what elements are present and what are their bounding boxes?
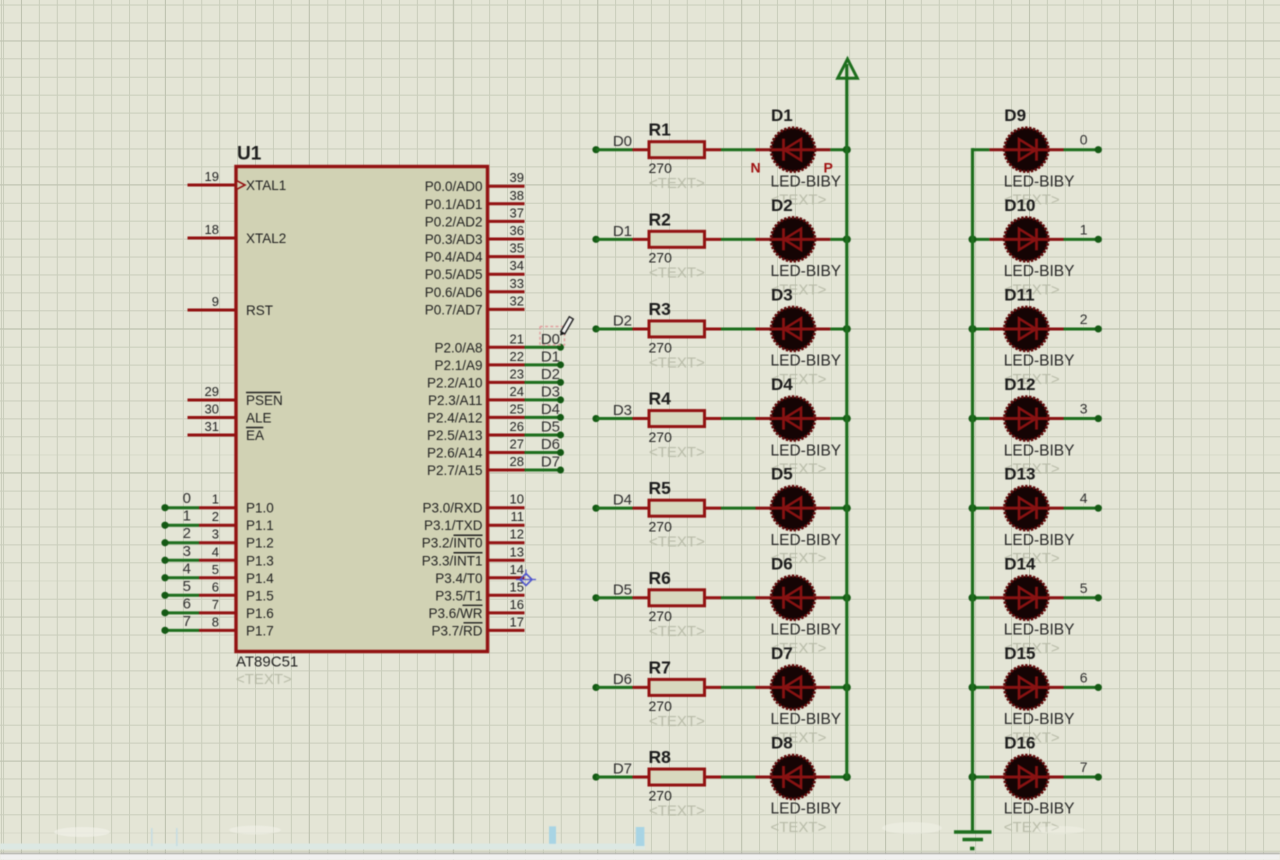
svg-text:P3.3/INT1: P3.3/INT1	[422, 553, 483, 568]
svg-text:P1.2: P1.2	[246, 536, 274, 551]
svg-text:<TEXT>: <TEXT>	[649, 802, 705, 819]
svg-text:9: 9	[212, 294, 219, 309]
svg-text:4: 4	[183, 560, 191, 577]
svg-text:5: 5	[1080, 580, 1088, 596]
svg-text:D2: D2	[613, 312, 632, 329]
svg-text:D11: D11	[1004, 285, 1034, 304]
svg-text:D7: D7	[613, 761, 632, 778]
svg-text:16: 16	[510, 597, 524, 612]
svg-text:7: 7	[183, 613, 191, 630]
svg-text:P3.5/T1: P3.5/T1	[435, 588, 482, 603]
svg-text:D10: D10	[1004, 196, 1035, 215]
svg-text:LED-BIBY: LED-BIBY	[1004, 532, 1075, 549]
svg-text:12: 12	[510, 527, 524, 542]
svg-text:D5: D5	[613, 581, 632, 598]
svg-text:25: 25	[510, 401, 524, 416]
svg-text:P1.5: P1.5	[246, 588, 274, 603]
svg-text:<TEXT>: <TEXT>	[771, 819, 827, 836]
svg-text:P2.0/A8: P2.0/A8	[434, 340, 482, 355]
svg-text:10: 10	[510, 492, 524, 507]
svg-text:17: 17	[510, 614, 524, 629]
svg-text:2: 2	[212, 509, 219, 524]
svg-text:P0.4/AD4: P0.4/AD4	[425, 250, 483, 265]
svg-text:D1: D1	[771, 106, 793, 125]
svg-text:P1.0: P1.0	[246, 501, 274, 516]
svg-text:34: 34	[510, 258, 524, 273]
svg-text:29: 29	[205, 384, 219, 399]
svg-text:D4: D4	[613, 492, 632, 509]
svg-text:<TEXT>: <TEXT>	[649, 265, 705, 282]
svg-text:LED-BIBY: LED-BIBY	[1004, 353, 1075, 370]
svg-text:22: 22	[510, 349, 524, 364]
svg-text:4: 4	[1080, 490, 1088, 506]
svg-text:LED-BIBY: LED-BIBY	[771, 173, 842, 190]
svg-text:P1.3: P1.3	[246, 553, 274, 568]
svg-text:P1.7: P1.7	[246, 623, 274, 638]
svg-text:P2.4/A12: P2.4/A12	[427, 410, 483, 425]
svg-text:18: 18	[205, 222, 219, 237]
svg-text:19: 19	[205, 169, 219, 184]
svg-text:D3: D3	[541, 383, 560, 400]
svg-text:2: 2	[1080, 311, 1088, 327]
svg-text:LED-BIBY: LED-BIBY	[1004, 711, 1075, 728]
svg-text:<TEXT>: <TEXT>	[649, 534, 705, 551]
svg-text:8: 8	[212, 614, 219, 629]
svg-text:P1.1: P1.1	[246, 518, 274, 533]
svg-text:26: 26	[510, 419, 524, 434]
svg-text:D7: D7	[541, 454, 560, 471]
svg-text:P3.7/RD: P3.7/RD	[431, 623, 482, 638]
svg-text:<TEXT>: <TEXT>	[649, 623, 705, 640]
svg-text:R4: R4	[649, 389, 672, 409]
svg-text:4: 4	[212, 544, 219, 559]
svg-text:28: 28	[510, 454, 524, 469]
svg-text:LED-BIBY: LED-BIBY	[771, 353, 842, 370]
svg-text:<TEXT>: <TEXT>	[649, 175, 705, 192]
svg-text:P2.3/A11: P2.3/A11	[428, 393, 483, 408]
svg-text:D3: D3	[771, 285, 793, 304]
svg-text:2: 2	[183, 525, 191, 542]
svg-text:14: 14	[510, 562, 524, 577]
svg-text:D4: D4	[771, 375, 793, 394]
svg-text:U1: U1	[237, 144, 262, 165]
svg-text:D15: D15	[1004, 644, 1035, 663]
svg-text:270: 270	[649, 339, 673, 355]
svg-text:R2: R2	[649, 209, 672, 229]
svg-text:270: 270	[649, 787, 673, 803]
svg-text:27: 27	[510, 436, 524, 451]
svg-text:AT89C51: AT89C51	[236, 654, 298, 671]
svg-text:<TEXT>: <TEXT>	[649, 713, 705, 730]
svg-text:LED-BIBY: LED-BIBY	[771, 532, 842, 549]
svg-text:R6: R6	[649, 568, 672, 588]
svg-text:3: 3	[1080, 401, 1088, 417]
svg-text:0: 0	[1080, 132, 1088, 148]
svg-text:LED-BIBY: LED-BIBY	[1004, 173, 1075, 190]
svg-text:RST: RST	[246, 303, 273, 318]
svg-text:D5: D5	[771, 465, 793, 484]
svg-text:1: 1	[1080, 221, 1088, 237]
svg-text:LED-BIBY: LED-BIBY	[1004, 622, 1075, 639]
svg-text:P0.7/AD7: P0.7/AD7	[425, 302, 483, 317]
svg-text:R8: R8	[649, 747, 672, 767]
svg-text:D6: D6	[541, 436, 560, 453]
svg-text:21: 21	[510, 331, 524, 346]
svg-text:D16: D16	[1004, 734, 1035, 753]
svg-text:24: 24	[510, 384, 524, 399]
svg-text:P1.4: P1.4	[246, 571, 274, 586]
svg-text:P0.6/AD6: P0.6/AD6	[425, 285, 483, 300]
svg-text:P3.0/RXD: P3.0/RXD	[422, 501, 482, 516]
svg-text:LED-BIBY: LED-BIBY	[771, 801, 842, 818]
svg-text:D2: D2	[541, 366, 560, 383]
svg-text:3: 3	[183, 543, 191, 560]
svg-text:LED-BIBY: LED-BIBY	[771, 711, 842, 728]
svg-text:LED-BIBY: LED-BIBY	[1004, 263, 1075, 280]
svg-text:D2: D2	[771, 196, 793, 215]
svg-text:LED-BIBY: LED-BIBY	[771, 622, 842, 639]
svg-text:P0.1/AD1: P0.1/AD1	[425, 197, 483, 212]
svg-text:38: 38	[510, 188, 524, 203]
svg-text:33: 33	[510, 276, 524, 291]
svg-text:<TEXT>: <TEXT>	[649, 444, 705, 461]
svg-text:D0: D0	[613, 133, 632, 150]
svg-text:<TEXT>: <TEXT>	[649, 354, 705, 371]
svg-text:R5: R5	[649, 478, 672, 498]
svg-text:36: 36	[510, 223, 524, 238]
svg-text:D4: D4	[541, 401, 560, 418]
svg-text:270: 270	[649, 519, 673, 535]
svg-text:D12: D12	[1004, 375, 1035, 394]
svg-text:270: 270	[649, 429, 673, 445]
svg-text:1: 1	[212, 492, 219, 507]
svg-text:D1: D1	[541, 348, 560, 365]
svg-text:PSEN: PSEN	[246, 393, 283, 408]
svg-text:D5: D5	[541, 418, 560, 435]
svg-text:270: 270	[649, 250, 673, 266]
svg-text:<TEXT>: <TEXT>	[236, 671, 292, 688]
svg-text:P3.4/T0: P3.4/T0	[435, 571, 482, 586]
svg-text:6: 6	[183, 595, 191, 612]
svg-text:D13: D13	[1004, 465, 1035, 484]
svg-text:P2.6/A14: P2.6/A14	[427, 445, 483, 460]
svg-text:3: 3	[212, 527, 219, 542]
svg-text:D9: D9	[1004, 106, 1026, 125]
svg-text:6: 6	[212, 579, 219, 594]
svg-text:D6: D6	[613, 671, 632, 688]
svg-text:R1: R1	[649, 120, 672, 140]
svg-text:6: 6	[1080, 669, 1088, 685]
svg-text:P3.1/TXD: P3.1/TXD	[424, 518, 483, 533]
svg-text:P1.6: P1.6	[246, 606, 274, 621]
svg-text:P3.6/WR: P3.6/WR	[428, 606, 482, 621]
svg-text:30: 30	[205, 402, 219, 417]
svg-text:39: 39	[510, 170, 524, 185]
svg-text:P: P	[824, 160, 833, 176]
svg-text:ALE: ALE	[246, 411, 272, 426]
svg-text:EA: EA	[246, 428, 264, 443]
svg-text:P0.5/AD5: P0.5/AD5	[425, 267, 483, 282]
svg-text:XTAL1: XTAL1	[246, 178, 286, 193]
svg-text:35: 35	[510, 241, 524, 256]
svg-text:LED-BIBY: LED-BIBY	[1004, 801, 1075, 818]
svg-text:13: 13	[510, 544, 524, 559]
svg-text:270: 270	[649, 698, 673, 714]
svg-text:270: 270	[649, 160, 673, 176]
svg-text:D3: D3	[613, 402, 632, 419]
svg-text:LED-BIBY: LED-BIBY	[1004, 442, 1075, 459]
svg-text:P0.3/AD3: P0.3/AD3	[425, 232, 483, 247]
svg-text:D7: D7	[771, 644, 793, 663]
svg-text:37: 37	[510, 205, 524, 220]
svg-text:11: 11	[511, 509, 525, 524]
svg-text:0: 0	[183, 490, 191, 507]
svg-text:32: 32	[510, 293, 524, 308]
svg-text:N: N	[751, 160, 761, 176]
svg-text:XTAL2: XTAL2	[246, 231, 286, 246]
svg-text:P2.2/A10: P2.2/A10	[427, 375, 483, 390]
svg-text:7: 7	[212, 597, 219, 612]
svg-text:P0.0/AD0: P0.0/AD0	[425, 179, 483, 194]
svg-text:LED-BIBY: LED-BIBY	[771, 263, 842, 280]
svg-text:P2.1/A9: P2.1/A9	[434, 358, 482, 373]
svg-text:LED-BIBY: LED-BIBY	[771, 442, 842, 459]
svg-text:1: 1	[183, 508, 191, 525]
svg-text:P2.5/A13: P2.5/A13	[427, 428, 483, 443]
svg-text:R3: R3	[649, 299, 672, 319]
svg-text:5: 5	[183, 578, 191, 595]
svg-text:D8: D8	[771, 734, 793, 753]
svg-text:23: 23	[510, 366, 524, 381]
svg-text:R7: R7	[649, 657, 671, 677]
svg-text:270: 270	[649, 608, 673, 624]
svg-text:5: 5	[212, 562, 219, 577]
svg-text:P2.7/A15: P2.7/A15	[427, 463, 483, 478]
svg-text:7: 7	[1080, 759, 1088, 775]
svg-text:P0.2/AD2: P0.2/AD2	[425, 214, 483, 229]
svg-text:D1: D1	[613, 223, 632, 240]
svg-text:31: 31	[205, 419, 219, 434]
svg-text:D6: D6	[771, 554, 793, 573]
svg-text:D14: D14	[1004, 554, 1036, 573]
svg-text:P3.2/INT0: P3.2/INT0	[422, 536, 483, 551]
